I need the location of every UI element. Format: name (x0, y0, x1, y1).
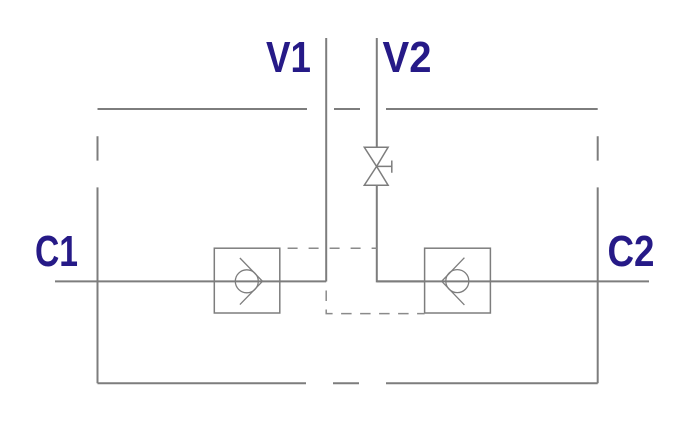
svg-text:V1: V1 (266, 33, 311, 82)
svg-text:C2: C2 (608, 227, 655, 276)
svg-text:V2: V2 (383, 33, 432, 82)
svg-text:C1: C1 (35, 227, 78, 276)
